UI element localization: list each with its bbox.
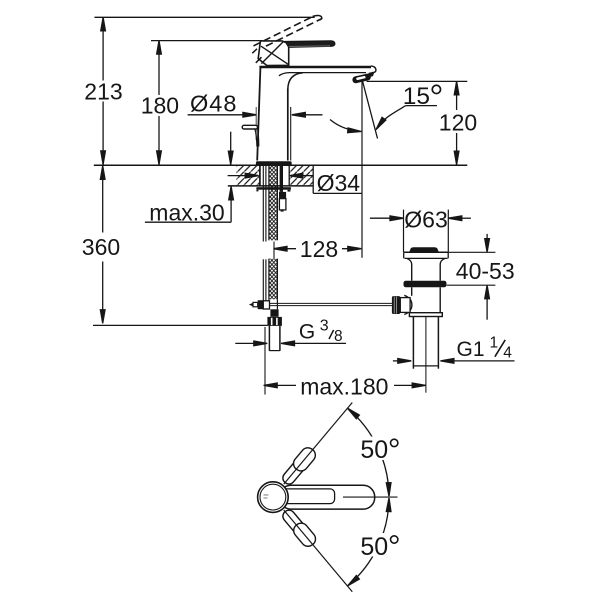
svg-text:3: 3 [320, 317, 329, 334]
svg-text:max.30: max.30 [149, 199, 224, 225]
svg-text:G: G [299, 321, 315, 344]
svg-text:120: 120 [439, 110, 477, 136]
svg-text:max.180: max.180 [300, 374, 388, 400]
svg-text:180: 180 [141, 93, 179, 119]
svg-text:360: 360 [82, 234, 120, 260]
svg-text:128: 128 [300, 236, 338, 262]
svg-text:50: 50 [360, 436, 388, 464]
svg-text:40-53: 40-53 [456, 258, 515, 284]
svg-text:G1: G1 [457, 338, 485, 361]
svg-text:Ø34: Ø34 [317, 170, 361, 196]
svg-text:50: 50 [360, 533, 388, 561]
svg-text:Ø48: Ø48 [190, 90, 237, 116]
svg-text:213: 213 [84, 78, 122, 104]
svg-text:4: 4 [503, 345, 512, 362]
svg-text:15: 15 [403, 83, 430, 110]
svg-text:1: 1 [490, 335, 499, 352]
svg-text:8: 8 [334, 328, 343, 345]
svg-text:Ø63: Ø63 [404, 206, 447, 232]
